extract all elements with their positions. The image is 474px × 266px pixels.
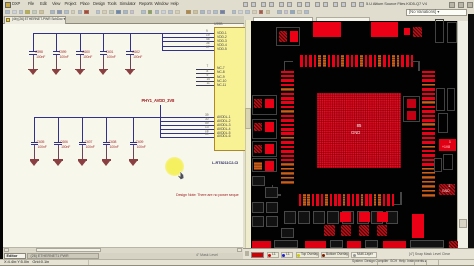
- wire C601 to ground: [102, 55, 105, 69]
- schematic horizontal scrollbar track: [3, 247, 243, 253]
- bottom edge pads (clipped by window): [252, 241, 271, 248]
- IC U59B body (Ethernet PHY, partially clipped): [214, 27, 246, 151]
- component L3 pads: [254, 145, 262, 154]
- ground symbol below C600: [75, 69, 85, 70]
- layer tab Top Overlay: [296, 252, 319, 258]
- U59B AVDDL pin names: [217, 116, 230, 119]
- wire net label stem / AVDDL fan vertical: [159, 105, 162, 138]
- ground symbol below C605: [30, 159, 40, 160]
- panel buttons: [352, 260, 426, 263]
- scrollbar left arrow: [4, 248, 9, 253]
- PCB editor canvas: [251, 21, 459, 248]
- component L1 outline (left column): [252, 95, 277, 115]
- panel button separator 4: [438, 260, 439, 265]
- small dark pads bottom-left: [265, 187, 278, 198]
- wire C607 to ground: [81, 145, 84, 159]
- layer tab Multi-Layer: [351, 252, 377, 258]
- ground symbol below C607: [78, 159, 88, 160]
- wire AVDDL pin feed 6: [160, 136, 214, 139]
- silkscreen outlines right-mid: [436, 88, 445, 111]
- wire C609 to ground: [132, 145, 135, 159]
- capacitor C599: [55, 34, 58, 52]
- QFP central GND pad 85: [317, 93, 402, 168]
- wire C602 to ground: [129, 55, 132, 69]
- panel button separator 1: [377, 260, 378, 265]
- QFP bottom pin row: [299, 194, 302, 207]
- left window edge: [0, 0, 3, 266]
- QFP top pin row: [300, 55, 303, 67]
- window control icons top right: [449, 2, 455, 8]
- C598 designator and value labels: [35, 51, 43, 54]
- layer tab Bottom Overlay: [321, 252, 349, 258]
- schematic vertical scrollbar: [245, 20, 251, 250]
- wire C605 to ground: [33, 145, 36, 159]
- test point 2 GND label pad: [439, 184, 456, 196]
- status separator: [88, 260, 89, 265]
- U59B VDD pin names: [217, 32, 227, 35]
- C605 designator and value labels: [37, 141, 45, 144]
- wire VDD pin feed 5: [162, 49, 215, 52]
- panel button separator 3: [426, 260, 427, 265]
- capacitor C606: [57, 118, 60, 142]
- part number label: [212, 161, 238, 165]
- wire AVDDL pin feed 3: [160, 124, 214, 127]
- left mask level text: [196, 254, 218, 258]
- silkscreen corner top-left: [284, 61, 293, 63]
- right-side mini toolbar icons on title row: [243, 2, 248, 7]
- document icon in tab: [6, 18, 10, 23]
- C600 designator and value labels: [82, 51, 90, 54]
- pad large top rect 2: [371, 22, 399, 38]
- bottom edge outline pads: [274, 240, 298, 248]
- component L1 pads: [254, 99, 262, 108]
- schematic document tab bar: [3, 16, 244, 25]
- capacitor C605: [33, 118, 36, 142]
- component L4 outline (left column): [252, 158, 277, 173]
- capacitor C609: [132, 118, 135, 142]
- mouse cursor glyph: [177, 167, 185, 176]
- wire VDD pin feed 4: [162, 45, 215, 48]
- wire C599 to ground: [55, 55, 58, 69]
- pad hatched (top-left comp): [279, 31, 287, 42]
- U59B NC pin names: [217, 67, 225, 70]
- layer tab L1 red: [267, 252, 279, 258]
- window title text: [366, 2, 427, 6]
- bottom edge: [0, 265, 474, 266]
- snap mask level clear buttons: [409, 253, 450, 256]
- capacitor C600: [79, 34, 82, 52]
- capacitor C608: [105, 118, 108, 142]
- wire C606 to ground: [57, 145, 60, 159]
- PCB vertical scrollbar: [457, 21, 468, 251]
- component L2 pads: [254, 123, 262, 132]
- PCB toolbar combo box 1: [253, 17, 313, 23]
- wire C600 to ground: [79, 55, 82, 69]
- central pad text 85 GND: [354, 124, 364, 128]
- silkscreen corner top-right: [411, 61, 420, 63]
- coordinates text: [4, 260, 49, 264]
- Editor button: [4, 253, 26, 259]
- ground symbol below C599: [52, 69, 62, 70]
- main toolbar icons row: [5, 10, 10, 15]
- U59B NC pin stubs: [196, 69, 214, 70]
- DXP menu and main menu items: [12, 2, 20, 6]
- wire C608 to ground: [105, 145, 108, 159]
- wire AVDDL pin feed 1: [160, 116, 214, 119]
- silkscreen corner bottom-right: [400, 192, 402, 205]
- current layer swatch red: [251, 252, 265, 259]
- capacitor C607: [81, 118, 84, 142]
- net label PHY1_AVDD_3V8: [142, 99, 175, 103]
- capacitor C598: [32, 34, 35, 52]
- sheet tab: [27, 253, 99, 259]
- panel button separator 2: [414, 260, 415, 265]
- U59B AVDDL pin numbers: [205, 114, 209, 117]
- wire VDD bus horizontal: [33, 32, 215, 35]
- scrollbar right arrow: [237, 248, 242, 253]
- status bar: [0, 259, 474, 266]
- wire AVDDL pin feed 4: [160, 128, 214, 131]
- schematic vertical scrollbar thumb: [245, 108, 251, 129]
- component B1 pads: [340, 212, 351, 223]
- component B2 pads: [359, 212, 370, 223]
- ground symbol below C606: [53, 159, 63, 160]
- C601 designator and value labels: [106, 51, 114, 54]
- U59B designator: [214, 23, 222, 26]
- application icon: [5, 2, 11, 8]
- layer tab L1 blue: [281, 252, 293, 258]
- wire VDD pin feed 2: [162, 36, 215, 39]
- pad small top right: [404, 28, 411, 36]
- C609 designator and value labels: [136, 141, 144, 144]
- tall red pad bottom right: [412, 214, 424, 238]
- capacitor C601: [102, 34, 105, 52]
- pad solid (top-left comp): [290, 31, 298, 42]
- U59B NC pin numbers: [207, 65, 209, 68]
- component C-top-left outline: [276, 27, 300, 46]
- ground symbol below C609: [129, 159, 139, 160]
- pad hatched top right: [413, 27, 422, 37]
- extra hatched pad bottom center-left: [324, 225, 335, 236]
- PCB toolbar combo box 2: [316, 17, 370, 23]
- QFP left pin column: [281, 71, 294, 74]
- ground symbol below C608: [102, 159, 112, 160]
- row of bare pad outlines below QFP: [284, 211, 296, 225]
- C607 designator and value labels: [85, 141, 93, 144]
- silkscreen outlines top-right: [435, 19, 444, 43]
- wire AVDDL pin feed 5: [160, 132, 214, 135]
- wire VDD pin feed 3: [162, 40, 215, 43]
- component L2 outline (left column): [252, 119, 277, 139]
- U59B VDD pin numbers: [206, 30, 208, 33]
- PCB layer bar: [243, 248, 474, 259]
- ground symbol below C598: [28, 69, 38, 70]
- schematic horizontal scrollbar thumb: [36, 248, 101, 253]
- component R1 pads: [407, 99, 417, 108]
- wire AVDDL pin feed 2: [160, 120, 214, 123]
- No Variations dropdown: [406, 9, 467, 16]
- capacitor C602: [129, 34, 132, 52]
- component L3 outline (left column): [252, 141, 277, 157]
- active document tab: [4, 16, 66, 24]
- wire C598 to ground: [32, 55, 35, 69]
- ground symbol below C601: [99, 69, 109, 70]
- layer bar icon: [245, 251, 249, 256]
- component R1 outline (right of pad): [403, 96, 420, 122]
- wire AVDDL bus horizontal: [34, 116, 160, 119]
- ground symbol below C602: [125, 69, 135, 70]
- C602 designator and value labels: [132, 51, 140, 54]
- editor tab row: [3, 253, 243, 259]
- wire VDD fan vertical: [161, 33, 164, 50]
- window chrome background: [0, 0, 474, 24]
- schematic canvas: [3, 24, 243, 247]
- pad large top rect 1: [313, 22, 341, 38]
- C599 designator and value labels: [59, 51, 67, 54]
- component L4 pads: [254, 162, 262, 171]
- test point 1 +1V8 label pad: [439, 139, 456, 151]
- C608 designator and value labels: [109, 141, 117, 144]
- cursor highlight circle: [165, 157, 184, 176]
- right window edge: [468, 14, 474, 250]
- design note text: [176, 194, 239, 198]
- component B3 pads: [377, 212, 388, 223]
- C606 designator and value labels: [60, 141, 68, 144]
- QFP right pin column: [422, 71, 435, 74]
- PCB scrollbar thumb: [459, 219, 467, 228]
- silkscreen corner bottom-left: [272, 185, 274, 196]
